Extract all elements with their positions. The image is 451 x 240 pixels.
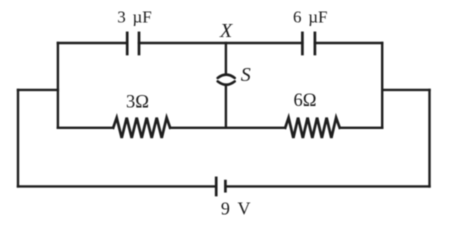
wire left jut: [18, 89, 58, 91]
wire inner right edge: [381, 43, 383, 128]
wire top rail right segment: [315, 42, 382, 44]
svg-text:3 µF: 3 µF: [117, 7, 152, 26]
wire inner left edge: [57, 43, 59, 128]
capacitor C1 3 uF plates: [127, 33, 139, 54]
resistor R2 6 ohm zigzag: [285, 118, 340, 138]
wire middle rail left segment: [58, 127, 113, 129]
resistor R1 3 ohm zigzag: [113, 118, 170, 138]
wire top rail left segment: [58, 42, 127, 44]
switch S contact arcs: [218, 75, 235, 85]
wire outer right edge: [428, 90, 430, 186]
wire switch branch lower: [225, 86, 227, 128]
wire switch branch upper: [225, 43, 227, 74]
wire bottom rail right segment: [227, 185, 430, 187]
svg-text:S: S: [241, 64, 251, 86]
svg-text:9 V: 9 V: [221, 199, 251, 219]
wire bottom rail left segment: [18, 185, 215, 187]
svg-text:6 µF: 6 µF: [293, 7, 328, 26]
wire top rail middle segment through node X: [139, 42, 302, 44]
capacitor C2 6 uF plates: [302, 33, 315, 54]
svg-text:3Ω: 3Ω: [126, 93, 149, 113]
svg-text:X: X: [219, 20, 233, 42]
svg-text:6Ω: 6Ω: [294, 91, 317, 111]
wire middle rail right segment: [340, 127, 383, 129]
wire middle rail center segment: [170, 127, 285, 129]
wire right jut: [382, 89, 429, 91]
wire outer left edge: [17, 90, 19, 186]
battery 9 V plates: [216, 178, 225, 195]
